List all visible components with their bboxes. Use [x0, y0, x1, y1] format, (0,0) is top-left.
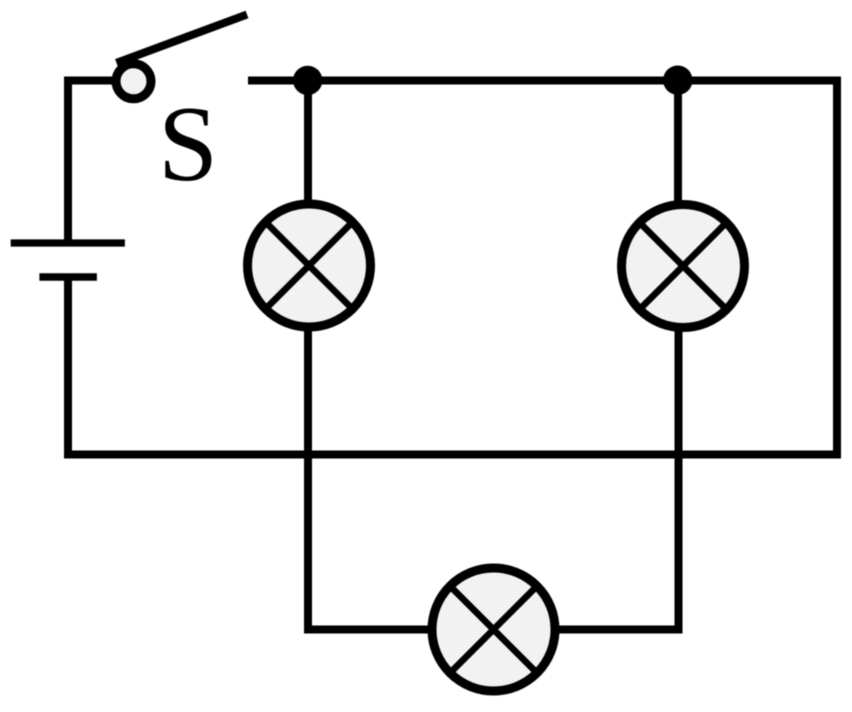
wire from lamp L1 down across middle wire to bottom-left corner then right to lamp L3: [308, 325, 433, 630]
junction dot node at lamp L1 branch: [293, 66, 322, 95]
junction dot node at lamp L2 branch: [663, 66, 692, 95]
wire from lamp L2 down across middle wire to bottom-right corner then left to lamp L3: [554, 326, 679, 630]
lamp L3 bottom (circle with X): [432, 568, 555, 691]
svg-text:S: S: [158, 85, 218, 204]
switch S pivot circle: [116, 64, 151, 99]
battery B bottom short plate (negative): [39, 273, 97, 280]
wire from battery positive up and right to switch pivot: [68, 81, 113, 244]
battery B top long plate (positive): [11, 239, 125, 246]
wire top horizontal from switch to top-right corner and right vertical down: [248, 81, 837, 455]
lamp L2 (circle with X): [622, 205, 745, 328]
wire from junction 2 down to lamp L2: [674, 81, 682, 207]
lamp L1 (circle with X): [248, 204, 371, 327]
wire from junction 1 down to lamp L1: [304, 81, 312, 207]
wire from battery negative down to bottom-left corner then middle horizontal wire: [68, 277, 841, 455]
switch S lever (open): [117, 15, 248, 63]
